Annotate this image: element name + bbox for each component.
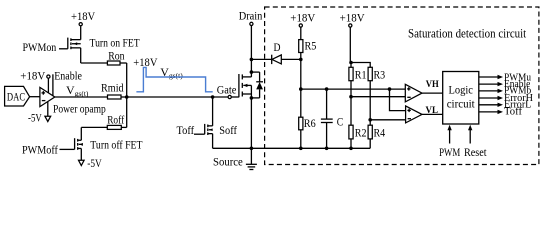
node VL+ branch junction (388, 87, 392, 91)
svg-text:Roff: Roff (107, 112, 124, 126)
wire VH output to logic block (422, 92, 443, 94)
svg-text:PWMoff: PWMoff (22, 143, 58, 157)
output PWMu (479, 72, 531, 83)
wire VH- tap to comparator (351, 96, 405, 98)
svg-text:R5: R5 (305, 39, 317, 53)
DAC block (5, 86, 30, 106)
input PWM (439, 125, 460, 159)
transistor Q4 main power FET (239, 74, 252, 97)
boundary dashed saturation-detection box (265, 7, 539, 165)
wire sense branch to VL+ input (390, 89, 406, 111)
resistor R5 (299, 39, 317, 53)
output ErrorL (479, 100, 532, 111)
svg-text:Toff: Toff (177, 123, 195, 137)
wire gate drive line to gate terminal (127, 96, 228, 98)
svg-text:Gate: Gate (217, 82, 237, 96)
transistor Q2 turn-off FET (75, 138, 83, 150)
svg-text:circuit: circuit (447, 97, 476, 111)
svg-text:D: D (274, 40, 281, 54)
node R1/R3 top junction (349, 61, 353, 65)
power +18V terminal (R5 pull-up) (290, 10, 315, 39)
wire gate terminal to main FET gate (232, 96, 239, 98)
node VH- tap (R1/R2 divider) (349, 95, 353, 99)
svg-text:VH: VH (426, 80, 440, 90)
transistor Q1 turn-on FET (68, 38, 81, 50)
wire Q1 drain to +18V terminal (80, 26, 82, 40)
svg-text:Drain: Drain (239, 9, 263, 23)
svg-text:-5V: -5V (87, 156, 102, 170)
node Enable input (53, 69, 82, 96)
output Toff (479, 106, 523, 117)
svg-text:Ron: Ron (108, 48, 124, 62)
svg-text:R2: R2 (355, 125, 367, 139)
wire DAC output to op-amp input (30, 96, 40, 98)
svg-text:PWM: PWM (439, 145, 460, 159)
logic circuit block U2 (443, 72, 479, 125)
wire PWMoff input to Q2 gate (60, 148, 75, 150)
svg-text:+18V: +18V (20, 69, 45, 83)
node Toff-branch junction on gate line (211, 95, 215, 99)
capacitor C (321, 87, 343, 150)
power -5V terminal (op-amp negative supply) (28, 102, 51, 125)
svg-text:+18V: +18V (290, 10, 315, 24)
svg-text:+18V: +18V (71, 9, 95, 23)
wire Q3 source to source rail (212, 134, 214, 149)
wire Roff to turn-off FET drain (81, 126, 107, 128)
wire sense node to VH+ input (301, 88, 406, 90)
resistor R1 (349, 67, 367, 81)
diode D desaturation detection (251, 40, 300, 64)
wire desat junction down to main FET drain (250, 59, 252, 77)
svg-text:-5V: -5V (28, 110, 42, 124)
op-amp U1 power opamp (40, 87, 55, 106)
ground (246, 147, 257, 170)
wire R5 bottom through sense node to R6 (300, 53, 302, 118)
svg-text:DAC: DAC (7, 90, 25, 104)
op-amp comparator VL (406, 106, 422, 123)
svg-text:Saturation detection circuit: Saturation detection circuit (408, 27, 527, 41)
input Reset (464, 125, 487, 159)
svg-text:Source: Source (213, 154, 243, 168)
svg-text:Logic: Logic (448, 83, 473, 97)
resistor Rmid (101, 80, 124, 99)
wire Q1 source to Ron (80, 48, 82, 63)
wire R4 bottom to rail end (369, 139, 371, 148)
output ErrorH (479, 93, 533, 104)
resistor Roff (107, 112, 124, 129)
wire VL output to logic block (422, 113, 443, 115)
svg-text:C: C (337, 115, 344, 129)
svg-text:R4: R4 (374, 125, 386, 139)
node drain / desat-diode junction (250, 58, 254, 62)
wire Q3 drain to gate line (212, 97, 214, 126)
wire Roff to bus (121, 126, 126, 128)
node desat sense node (299, 87, 303, 91)
wire drain terminal to desat junction (250, 26, 252, 60)
wire PWMon input to Q1 gate (59, 48, 68, 50)
node diode/R5 junction (299, 58, 303, 62)
svg-text:VL: VL (426, 106, 439, 116)
node gate-drive junction on bus (125, 95, 129, 99)
output Enable (479, 79, 531, 90)
wire R6 bottom to rail (300, 130, 302, 149)
svg-text:Rmid: Rmid (101, 80, 124, 94)
svg-text:R6: R6 (304, 116, 316, 130)
svg-text:PWMon: PWMon (23, 40, 57, 54)
wire source rail (213, 147, 371, 149)
wire Rmid to bus junction (121, 96, 127, 98)
node gate terminal (228, 95, 231, 98)
wire op-amp output to Rmid (55, 96, 108, 98)
power +18V terminal (op-amp supply) (20, 69, 50, 93)
resistor R2 (349, 125, 367, 139)
svg-text:Turn off FET: Turn off FET (90, 138, 143, 152)
resistor R6 (299, 116, 316, 130)
svg-text:R3: R3 (374, 68, 386, 82)
power +18V terminal (turn-on FET drain supply) (71, 9, 95, 26)
resistor Ron (107, 48, 124, 65)
transistor Q3 soft turn-off FET (Soff) (205, 124, 213, 135)
wire Q4 source to rail (250, 85, 252, 148)
node VL- tap (R3/R4 divider) (368, 118, 372, 122)
wire VL- tap to comparator (370, 119, 405, 121)
svg-text:Toff: Toff (504, 106, 523, 117)
wire R3 bottom to R4 top (369, 81, 371, 126)
node R2/rail junction (349, 147, 353, 151)
power -5V terminal (turn-off FET source) (79, 148, 103, 169)
wire gate-resistor bus (Ron/Rmid/Roff common) (126, 63, 128, 127)
waveform Vgs(t) gate-voltage trace (136, 67, 212, 91)
node R6/rail junction (299, 147, 303, 151)
svg-text:Enable: Enable (54, 69, 82, 83)
wire junction to R1 top (350, 63, 352, 68)
wire Toff input to Soff gate (194, 133, 205, 135)
svg-text:+18V: +18V (340, 10, 365, 24)
resistor R3 (368, 67, 385, 81)
svg-text:Power opamp: Power opamp (53, 102, 106, 116)
wire Q2 drain to Roff (80, 127, 82, 140)
wire R1 bottom to R2 top (350, 81, 352, 126)
svg-text:R1: R1 (355, 68, 367, 82)
power +18V terminal (R1/R3 divider) (340, 10, 365, 62)
svg-text:Soff: Soff (219, 123, 237, 137)
wire Ron to gate-resistor bus (120, 62, 127, 64)
op-amp comparator VH (405, 84, 422, 102)
svg-text:Reset: Reset (464, 145, 487, 159)
resistor R4 (368, 125, 385, 139)
wire R2 bottom to rail (350, 139, 352, 148)
diode body diode of Q4 (250, 70, 263, 99)
node Drain terminal (239, 9, 263, 26)
output PWMb (479, 86, 531, 97)
wire junction to R3 top (350, 63, 370, 68)
